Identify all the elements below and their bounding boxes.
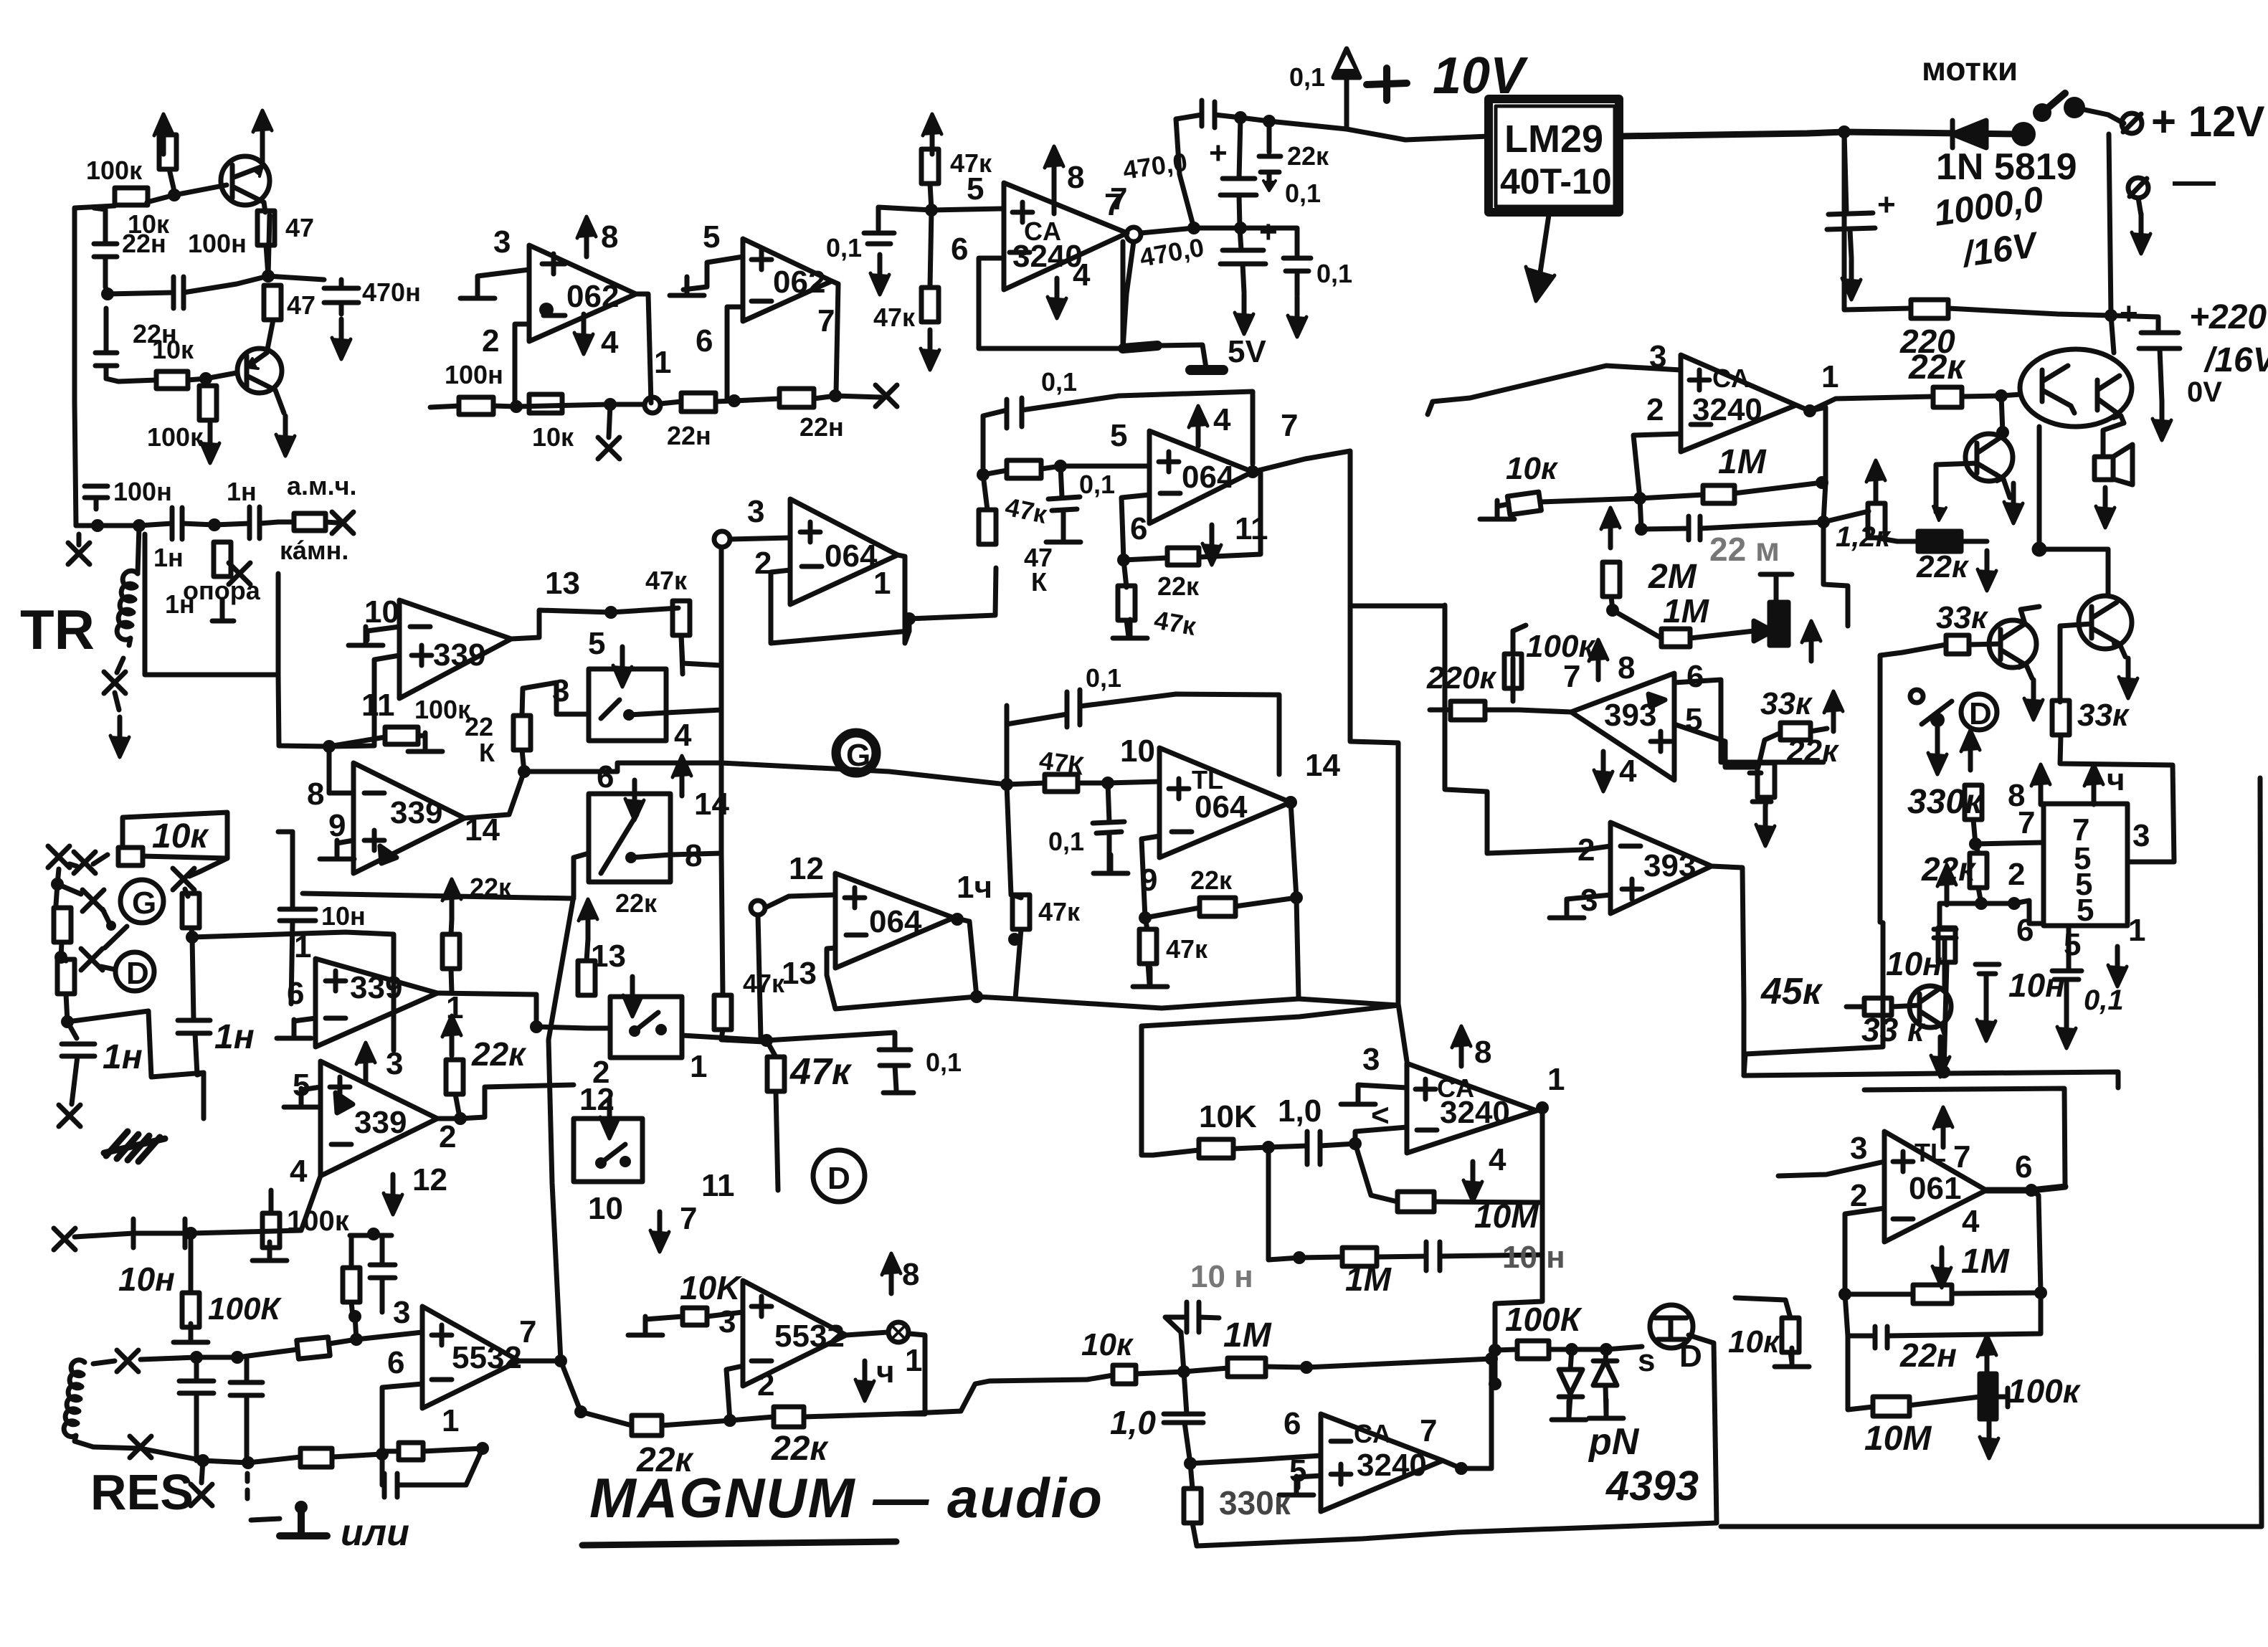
resistor on pin5 wire [983, 470, 1007, 475]
1n cap 2 on vertical [178, 937, 210, 1075]
transistor pair ellipse Q1/Q2 [2020, 349, 2132, 427]
svg-text:D: D [1679, 1339, 1702, 1374]
SW3 junction wire down [760, 1034, 773, 1047]
svg-text:11: 11 [701, 1168, 735, 1203]
wire node5 to opamp [931, 209, 1004, 210]
svg-text:7: 7 [680, 1201, 697, 1236]
comparator 339 #3 [315, 959, 437, 1047]
svg-text:+ 12V: + 12V [2151, 98, 2264, 146]
svg-text:1N 5819: 1N 5819 [1936, 146, 2077, 188]
pin6 node [376, 1448, 389, 1461]
svg-text:22: 22 [465, 712, 493, 741]
left box [1142, 1026, 1153, 1155]
svg-text:1: 1 [294, 929, 311, 964]
svg-text:или: или [341, 1512, 409, 1554]
arrow up pin 8 [577, 217, 596, 257]
output node [1455, 1462, 1468, 1475]
wire cap to node [105, 276, 268, 294]
D circle mid2 [813, 1150, 865, 1202]
staircase left boundary [1445, 605, 1487, 853]
svg-text:RES: RES [90, 1464, 194, 1520]
svg-text:064: 064 [1182, 460, 1235, 495]
dashes и symbol [245, 1473, 250, 1499]
33k resistor h [1780, 723, 1811, 740]
svg-text:8: 8 [1474, 1035, 1491, 1070]
33k resistor into T4 base [1946, 635, 1969, 654]
330k resistor with arrow [1961, 730, 1980, 770]
svg-text:3240: 3240 [1357, 1448, 1427, 1483]
resistor 10k #2 [156, 371, 188, 389]
arrow down pin 4 [574, 314, 593, 354]
svg-text:D: D [126, 956, 149, 991]
left vertical with 47k box [1007, 784, 1011, 895]
svg-text:10: 10 [588, 1191, 623, 1226]
5V thick bar [1123, 346, 1157, 348]
base wire to pot [1936, 463, 1977, 512]
wire to node [266, 245, 268, 276]
svg-text:10 н: 10 н [1190, 1259, 1253, 1294]
svg-text:3: 3 [393, 1295, 410, 1330]
junction [323, 740, 336, 753]
stack 22k/0,1 small [1267, 121, 1272, 152]
output 339#3 [437, 993, 536, 995]
pin13 feedback [827, 948, 977, 1009]
1M #2 to pot [1613, 610, 1661, 638]
output vertical down [1537, 1108, 1542, 1255]
wire down to T2 [267, 320, 273, 353]
output node [1803, 404, 1816, 417]
output vertical [1291, 802, 1299, 999]
cap 1000,0/16V [1844, 132, 1846, 212]
svg-text:2: 2 [757, 1367, 774, 1402]
svg-text:22к: 22к [615, 888, 658, 918]
опора box [145, 534, 278, 675]
+10V arrow [1334, 49, 1360, 129]
svg-text:10н: 10н [118, 1261, 175, 1298]
output [846, 1332, 925, 1414]
svg-text:2: 2 [2008, 857, 2025, 892]
op-amp CA3240 #3 [1321, 1414, 1443, 1511]
wire down from node 194,733 [138, 526, 139, 574]
100k resistor [1517, 1341, 1549, 1359]
svg-text:7: 7 [817, 303, 835, 338]
svg-text:К: К [479, 738, 495, 767]
FET circle [1650, 1305, 1693, 1348]
feedback left wire [515, 324, 529, 407]
wire down to 22k chain [561, 1361, 581, 1412]
svg-text:2: 2 [1850, 1178, 1867, 1213]
svg-text:10K: 10K [1199, 1099, 1257, 1134]
svg-text:3240: 3240 [1440, 1095, 1510, 1130]
svg-text:100к: 100к [1526, 629, 1596, 664]
svg-text:1н: 1н [153, 543, 184, 572]
svg-text:5: 5 [967, 171, 984, 207]
minus terminal [2128, 178, 2148, 198]
svg-text:1: 1 [690, 1049, 707, 1084]
long vertical from 064b joins here [1350, 624, 1398, 1005]
svg-text:0,1: 0,1 [1285, 179, 1321, 208]
wire from SW-col to node [721, 763, 1007, 784]
svg-text:0V: 0V [2187, 376, 2222, 408]
svg-text:G: G [132, 886, 156, 921]
svg-text:22к: 22к [1786, 734, 1840, 769]
svg-text:0,1: 0,1 [1041, 367, 1077, 397]
svg-text:3: 3 [1580, 883, 1598, 918]
output 339#4 [437, 1116, 460, 1121]
transistor T6 [1909, 986, 1951, 1034]
10k resistor with box loop [118, 848, 143, 865]
resistor 47k vertical [921, 149, 939, 184]
black pot 22k [1918, 531, 1961, 551]
svg-text:D: D [1969, 696, 1992, 731]
svg-text:100к: 100к [86, 156, 143, 185]
transistor T2 [237, 348, 284, 413]
svg-text:7: 7 [1563, 659, 1580, 694]
wire from 393#1 pin6 right [1674, 680, 1823, 762]
svg-text:100К: 100К [208, 1291, 282, 1326]
svg-text:3: 3 [493, 224, 511, 260]
wire from 339#4 down to 10n [191, 1176, 321, 1233]
plus sign [1367, 68, 1407, 100]
svg-text:мотки: мотки [1922, 50, 2018, 87]
feedback cap below [382, 1448, 483, 1497]
svg-text:8: 8 [307, 777, 324, 812]
22n cap [1845, 1294, 1887, 1348]
1M resistor #3 [1228, 1358, 1266, 1377]
svg-text:33к: 33к [1936, 600, 1989, 635]
svg-text:13: 13 [591, 939, 626, 974]
22n cap bridge [1640, 498, 1689, 529]
center vertical from ellipse down [2037, 427, 2042, 549]
12 arrow down right of 339#4 [384, 1174, 402, 1215]
thick dot node [2011, 122, 2036, 146]
coil RES [64, 1360, 93, 1447]
comparator 339 #2 [354, 763, 465, 873]
svg-text:3: 3 [718, 1304, 736, 1339]
svg-text:10к: 10к [532, 422, 574, 452]
staircase into block [1398, 1004, 1407, 1061]
SW2 switch box [589, 794, 721, 882]
svg-text:470н: 470н [362, 277, 421, 307]
input resistor into 5532#1 [297, 1337, 330, 1359]
node 1 open circle [645, 397, 660, 413]
svg-text:0,1: 0,1 [1289, 62, 1325, 92]
svg-text:12: 12 [412, 1162, 447, 1197]
pin3 wire + gnd [1358, 1085, 1407, 1098]
svg-text:22к: 22к [1190, 865, 1233, 895]
1M feedback [1640, 495, 1703, 498]
diode into pot [1754, 621, 1773, 641]
10k v resistor left [1782, 1318, 1799, 1352]
output loop [954, 918, 1015, 999]
svg-text:7: 7 [519, 1314, 536, 1349]
cap 0,1 below 555 pin5 [2067, 926, 2072, 971]
svg-text:1н: 1н [103, 1038, 143, 1076]
svg-text:6: 6 [696, 323, 713, 359]
100k resistor top bottom-left block [262, 1213, 280, 1248]
svg-text:7: 7 [1281, 408, 1298, 443]
wire dot right to T5 [2039, 549, 2108, 595]
G circle left [120, 880, 163, 923]
output wire right [1619, 132, 2018, 136]
junction dots top [1234, 111, 1247, 124]
bottom wire [1197, 1523, 1717, 1546]
svg-text:47к: 47к [645, 566, 688, 595]
cap 470,0 A polarized [1239, 118, 1240, 179]
svg-text:6: 6 [2016, 913, 2034, 948]
cap 1,0 [1268, 1146, 1307, 1147]
resistor 47k vertical top [673, 601, 690, 635]
svg-text:10K: 10K [680, 1269, 742, 1306]
wire to pin7 [1975, 843, 2044, 844]
resistor (vertical) below arrow [159, 135, 176, 169]
wire node right zigzag [524, 763, 721, 772]
resistor 100k (vertical) below node [199, 386, 217, 420]
wire CA3240#2 output down to 100k node [1495, 1255, 1542, 1350]
resistor [294, 513, 326, 531]
47k to ground [1124, 560, 1126, 587]
svg-text:22к: 22к [1287, 141, 1329, 171]
x below [201, 1461, 203, 1483]
100k pot right [1980, 1374, 1996, 1419]
svg-text:+: + [1259, 214, 1278, 250]
left branch down [1176, 119, 1194, 228]
pin8 arrow up [1045, 146, 1063, 186]
svg-text:8: 8 [1618, 650, 1635, 685]
arrow up feed 47k [923, 114, 941, 154]
pin2 wire loop [1633, 434, 1681, 498]
svg-text:6: 6 [287, 976, 304, 1011]
svg-text:339: 339 [354, 1105, 407, 1140]
svg-text:10М: 10М [1474, 1197, 1539, 1235]
node [262, 270, 275, 283]
cap 0,1 to gnd from pin5 node [1061, 466, 1062, 497]
output wire left through 220k [1519, 710, 1571, 712]
node open on vertical [714, 531, 730, 547]
svg-text:0,1: 0,1 [926, 1048, 962, 1077]
bottom wire [734, 396, 881, 401]
10k resistor [1199, 1139, 1233, 1158]
output 339#2 to node [465, 772, 524, 818]
cap 0,1 to gnd [1108, 783, 1109, 822]
svg-text:8: 8 [902, 1257, 919, 1292]
svg-text:1,0: 1,0 [1110, 1404, 1156, 1441]
svg-text:22 м: 22 м [1709, 531, 1780, 568]
svg-text:10: 10 [1120, 734, 1155, 769]
svg-text:10к: 10к [152, 335, 194, 364]
svg-text:11: 11 [361, 688, 395, 723]
svg-text:0,1: 0,1 [2084, 984, 2124, 1016]
svg-text:339: 339 [350, 970, 402, 1005]
svg-text:064: 064 [825, 538, 878, 574]
output wire [519, 1359, 561, 1364]
svg-text:6: 6 [951, 232, 968, 267]
SW3 switch box [610, 997, 682, 1058]
node and input [751, 901, 765, 915]
transistor T1 [221, 113, 270, 212]
svg-text:22н: 22н [1899, 1337, 1957, 1374]
svg-text:1: 1 [654, 345, 671, 380]
svg-text:14: 14 [1305, 748, 1340, 783]
wire 10n row to SW2 vertical [303, 893, 574, 898]
svg-text:0,1: 0,1 [1079, 470, 1115, 499]
svg-text:13: 13 [782, 956, 817, 991]
top input wire with X [93, 1357, 237, 1364]
vertical x1006 [719, 547, 724, 853]
wire from pin5 area to 33k/22k [1674, 724, 1758, 767]
svg-text:10н: 10н [321, 901, 366, 931]
arrow down below 470n [332, 319, 351, 359]
22k resistor [1970, 853, 1987, 888]
svg-text:6: 6 [2015, 1149, 2032, 1185]
svg-text:10М: 10М [1864, 1420, 1932, 1458]
wire up from 220 node to +12 rail [2109, 134, 2111, 315]
arrow 14 up [673, 756, 691, 796]
wire to opamp [356, 1332, 422, 1339]
0,1 bridge up and over [983, 410, 1007, 475]
op-amp TL061 [1884, 1131, 1986, 1242]
svg-text:330к: 330к [1907, 783, 1984, 821]
33k into T6 base [1864, 998, 1892, 1015]
arrow down [110, 717, 129, 757]
svg-text:6: 6 [1686, 659, 1704, 694]
svg-text:3: 3 [1850, 1131, 1867, 1166]
wire [169, 169, 174, 195]
svg-text:47к: 47к [1038, 897, 1081, 926]
pin2 feedback box [771, 570, 909, 643]
op-amp U1 062 [529, 245, 636, 341]
wire SW2 left [574, 853, 589, 896]
10k resistor [1113, 1365, 1136, 1384]
wire right from node [192, 932, 394, 1050]
svg-text:33к: 33к [1760, 686, 1813, 721]
svg-text:0,1: 0,1 [1316, 259, 1352, 288]
output wire [636, 294, 651, 403]
resistor vertical in box bottom [214, 542, 231, 576]
x mark below left [68, 543, 90, 564]
svg-text:3: 3 [1362, 1042, 1380, 1077]
pin3 wire [1778, 1162, 1884, 1176]
pot right wire + down arrow [1961, 539, 1987, 544]
47k vertical resistor under b-node [979, 510, 996, 544]
svg-text:22к: 22к [1157, 571, 1200, 601]
svg-text:3: 3 [747, 494, 764, 529]
svg-text:/16V: /16V [2203, 341, 2268, 379]
svg-text:339: 339 [433, 637, 485, 673]
svg-text:393: 393 [1643, 848, 1696, 883]
svg-text:062: 062 [773, 265, 825, 300]
svg-text:100к: 100к [414, 695, 471, 724]
pin4 arrow down [1048, 278, 1066, 318]
cap 470,0 B below rail [1240, 228, 1241, 250]
op-amp 5532 #2 [743, 1281, 846, 1386]
svg-text:47к: 47к [743, 969, 785, 998]
x below [609, 404, 610, 437]
transistor T5 [2079, 596, 2132, 657]
wire left with cap 0,1 down [878, 207, 931, 229]
22k resistor 1 [632, 1415, 662, 1435]
cap 0,1 to gnd right of node [767, 1033, 914, 1093]
op-amp 064 #b [1149, 431, 1253, 523]
svg-text:1М: 1М [1223, 1316, 1272, 1354]
22k arrow stacks [579, 899, 597, 939]
svg-text:1М: 1М [1718, 443, 1767, 481]
feedback box wire pin6 [979, 242, 1123, 348]
svg-text:5: 5 [1110, 418, 1127, 453]
node [1838, 125, 1851, 138]
svg-text:+: + [2120, 296, 2138, 331]
LM29 regulator box [1489, 99, 1619, 212]
svg-text:100н: 100н [445, 360, 503, 389]
left vertical chain [57, 869, 59, 884]
wire [104, 308, 109, 330]
22k v resistor [1757, 763, 1775, 797]
svg-text:6: 6 [387, 1345, 404, 1380]
svg-text:2: 2 [439, 1119, 456, 1154]
resistor bottom 1 [300, 1448, 332, 1467]
1n cap down [62, 1022, 95, 1104]
cap 0,1 B [1240, 228, 1297, 258]
svg-text:100н: 100н [113, 477, 172, 506]
svg-text:12: 12 [789, 851, 824, 886]
47k drop wire [681, 635, 721, 665]
wire pin3 [478, 270, 529, 293]
svg-text:100н: 100н [188, 229, 247, 258]
wire from node down to 339#2 input and 100k [329, 655, 399, 746]
caps to bottom rail [179, 1357, 214, 1461]
svg-text:1ч: 1ч [957, 870, 992, 905]
svg-text:100к: 100к [147, 422, 204, 452]
svg-text:47к: 47к [1166, 934, 1208, 964]
33k resistor v right [2058, 626, 2063, 702]
wire from 22k node to 555 pin6 [1981, 901, 2044, 924]
op-amp 5532 #1 [422, 1306, 522, 1408]
pin6 wire down to node [1121, 495, 1149, 560]
svg-text:1н: 1н [214, 1018, 255, 1056]
pin2 wire down to 22k node [726, 1366, 743, 1420]
coil TR [117, 571, 138, 645]
drain wire down right [1689, 1335, 1717, 1523]
svg-text:1: 1 [442, 1403, 459, 1438]
svg-text:10к: 10к [152, 817, 209, 855]
svg-text:4: 4 [1489, 1142, 1507, 1177]
left long vertical wire [75, 208, 76, 526]
svg-text:1М: 1М [1961, 1243, 2010, 1281]
svg-text:10 н: 10 н [1502, 1240, 1565, 1275]
svg-text:+220: +220 [2189, 298, 2267, 336]
47k resistor right of SW3 [714, 995, 731, 1030]
wire from 22k chain to 10k [961, 1380, 1087, 1411]
svg-text:47К: 47К [1038, 745, 1086, 780]
resistor 22k to node1 right [660, 401, 734, 404]
svg-text:MAGNUM — audio: MAGNUM — audio [589, 1466, 1104, 1529]
45k resistor with arrow [1937, 865, 1956, 905]
1M feedback [1913, 1285, 1952, 1304]
output node open [1126, 227, 1141, 242]
svg-text:33к: 33к [2077, 698, 2130, 733]
node [199, 372, 212, 385]
svg-text:47к: 47к [789, 1051, 853, 1093]
svg-text:6: 6 [1284, 1406, 1301, 1441]
10M loop [1355, 1144, 1398, 1202]
node [168, 189, 181, 201]
diode D2 up [1605, 1349, 1606, 1361]
D switch circle [1961, 694, 1997, 730]
svg-text:1: 1 [2128, 913, 2145, 948]
svg-text:4: 4 [290, 1154, 308, 1189]
svg-text:1: 1 [1547, 1062, 1565, 1097]
svg-text:+: + [1877, 187, 1896, 222]
